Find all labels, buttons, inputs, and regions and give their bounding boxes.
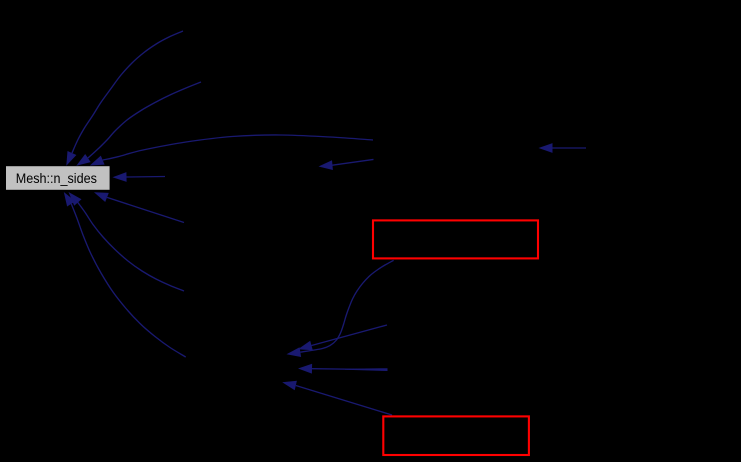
edge G (caller long curve -> bottom of Mesh::n_sides) xyxy=(64,192,186,357)
edge C (long swoop caller -> Mesh::n_sides) xyxy=(90,135,373,166)
edge E (caller -> bottom of Mesh::n_sides) xyxy=(94,192,184,222)
edge H (caller -> mid node, short) xyxy=(319,159,374,170)
edge F (caller curve -> bottom of Mesh::n_sides) xyxy=(69,192,185,291)
edge M (red node 2 -> lower mid node) xyxy=(282,381,392,415)
edge L2 (second overlapping caller edge, merging taper) xyxy=(345,368,388,371)
edge I (far right caller arrow) xyxy=(539,143,587,153)
edge D (caller -> right edge of Mesh::n_sides) xyxy=(113,172,166,182)
edge B (top caller 2 -> Mesh::n_sides) xyxy=(76,82,201,166)
node Mesh::n_sides (current function, grey box) xyxy=(6,166,110,190)
edge L (caller -> lower mid node, horizontal) xyxy=(298,364,387,374)
edge K (caller -> lower mid node) xyxy=(298,325,387,350)
edge A (top caller 1 -> Mesh::n_sides) xyxy=(66,31,183,166)
edge J (red node 1 -> lower mid node, hooked curve) xyxy=(287,260,394,357)
svg-text:Mesh::n_sides: Mesh::n_sides xyxy=(16,171,97,187)
node (red, truncated) upper caller box xyxy=(373,220,538,258)
node (red, truncated) lower caller box xyxy=(383,416,529,455)
